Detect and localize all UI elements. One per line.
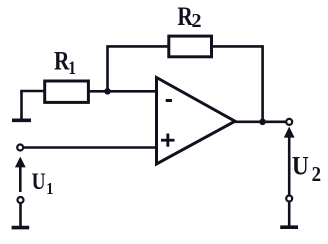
svg-text:2: 2 [312, 163, 321, 186]
svg-text:1: 1 [68, 57, 76, 78]
svg-text:1: 1 [46, 180, 53, 198]
svg-text:2: 2 [192, 10, 202, 32]
svg-text:U: U [292, 153, 309, 181]
svg-text:U: U [32, 168, 46, 194]
